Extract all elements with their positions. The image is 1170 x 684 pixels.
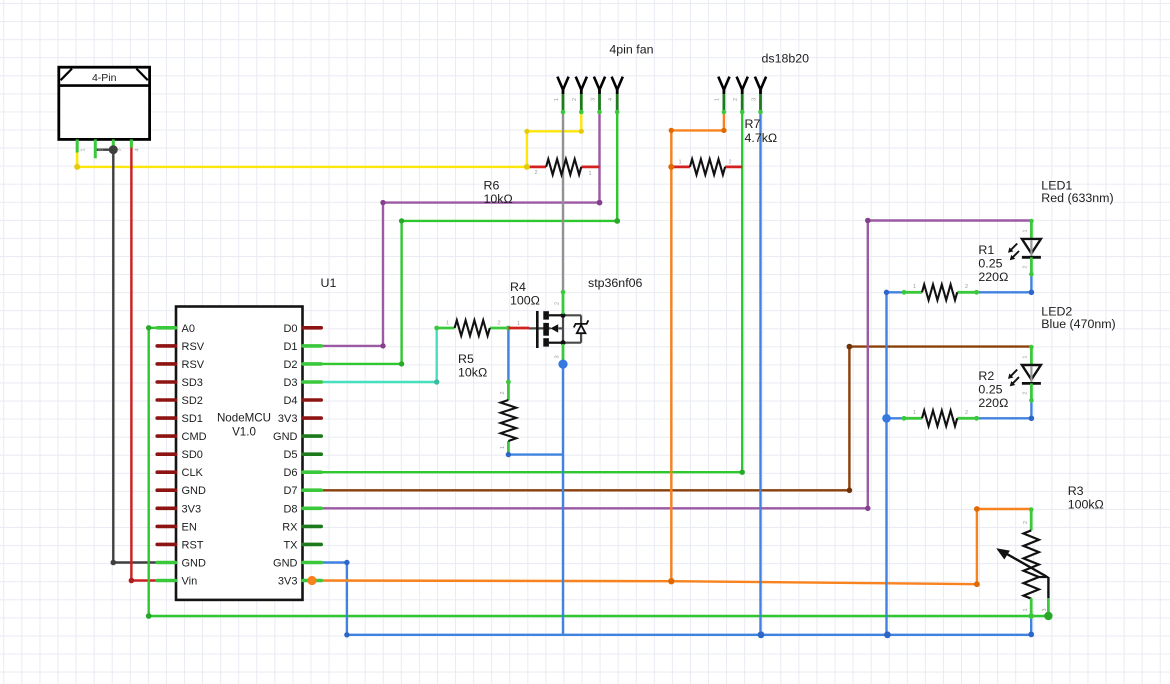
junction green R3 pin3 [1044,612,1052,620]
svg-text:D4: D4 [283,395,297,407]
svg-text:2: 2 [965,410,968,416]
bend green fan pin4 [614,218,620,224]
junction orange 3V3 pin [307,576,316,585]
svg-text:1: 1 [913,410,916,416]
svg-text:SD2: SD2 [182,395,203,407]
U1 right pin 24 D6 [283,467,321,479]
bend brown top [847,344,853,350]
IC U1 NodeMCU V1.0 [176,276,336,600]
svg-text:0.25: 0.25 [978,256,1002,270]
svg-text:2: 2 [535,170,538,176]
U1 right pin 16 D0 [283,323,321,335]
connector pin 3 [113,139,122,151]
svg-text:D8: D8 [283,503,297,515]
bend purple D8 top [865,218,871,224]
resistor R6 10k [484,159,600,206]
U1 right pin 18 D2 [283,359,321,371]
svg-text:2: 2 [729,160,732,166]
bend yellow [524,129,529,134]
wire purple: NodeMCU D8 to LED1 anode [321,221,1031,509]
wire blue: ds18b20 pin3 to bottom rail [759,112,761,635]
svg-text:SD3: SD3 [182,377,203,389]
svg-text:2: 2 [555,302,561,305]
svg-text:2: 2 [572,98,578,101]
bend purple fan pin3 [597,200,603,206]
wire black: 4-Pin pin2/pin3 to NodeMCU GND [95,150,158,563]
resistor R1 220 [902,243,1009,300]
U1 left pin 3 RSV [157,359,205,371]
LED2 blue [1008,305,1116,403]
bend blue GND bottom [344,632,349,637]
junction black at 4-Pin pin3 [109,145,118,154]
wire blue: LED1 cathode to R1, R1 to vertical rail [887,275,1032,635]
wire purple: NodeMCU D1 to fan pin3 [321,112,600,346]
U1 right pin 29 GND [273,558,321,570]
header pin 2 [733,77,748,115]
svg-text:1: 1 [1023,229,1029,232]
wire green: NodeMCU A0 to R3 pin [149,328,1049,616]
svg-text:R6: R6 [484,179,500,193]
svg-text:Red (633nm): Red (633nm) [1041,191,1113,205]
svg-text:Vin: Vin [182,576,198,588]
svg-text:D2: D2 [283,359,297,371]
bend blue GND [344,560,349,565]
U1 right pin 17 D1 [283,341,321,353]
svg-text:D6: D6 [283,467,297,479]
svg-text:R4: R4 [510,280,526,294]
junction blue MOSFET source [558,360,567,369]
svg-text:4pin fan: 4pin fan [609,43,653,57]
U1 right pin 23 D5 [283,449,321,461]
svg-text:U1: U1 [321,276,337,290]
bend orange rail right [974,581,980,587]
U1 right pin 20 D4 [283,395,321,407]
wire green: NodeMCU D6 to ds18b20 pin2 / R7 right [321,112,742,473]
svg-text:R5: R5 [458,352,474,366]
svg-text:220Ω: 220Ω [978,396,1008,410]
svg-text:GND: GND [182,558,207,570]
wire grey: fan pin1 to MOSFET drain [562,112,564,292]
wire cyan: NodeMCU D3 to R4 left [321,328,437,382]
U1 right pin 19 D3 [283,377,321,389]
connector pin 1 [77,139,86,152]
svg-text:SD0: SD0 [182,449,203,461]
junction yellow at R6 left [524,164,530,170]
wire green: NodeMCU D2 to fan pin4 [321,112,617,364]
U1 left pin 7 CMD [157,431,206,443]
svg-text:1: 1 [554,98,560,101]
svg-text:EN: EN [182,521,197,533]
svg-text:3: 3 [555,355,561,358]
svg-text:3V3: 3V3 [182,503,202,515]
svg-text:4: 4 [135,148,141,151]
svg-text:D1: D1 [283,341,297,353]
wire blue: NodeMCU GND to bottom rail and R3 pin1 [321,563,1031,635]
svg-text:0.25: 0.25 [978,383,1002,397]
U1 right pin 25 D7 [283,485,321,497]
svg-text:RX: RX [282,521,298,533]
svg-text:D5: D5 [283,449,297,461]
svg-text:100Ω: 100Ω [510,294,540,308]
junction blue R2 left [882,414,891,423]
U1 left pin 11 3V3 [157,503,201,515]
wire brown: NodeMCU D7 to LED2 anode [321,347,1031,491]
bend green D2 [399,361,404,366]
U1 left pin 8 SD0 [157,449,203,461]
svg-text:2: 2 [498,321,501,327]
U1 left pin 5 SD2 [157,395,203,407]
svg-text:10kΩ: 10kΩ [458,366,487,380]
junction green R3 pin1 [1028,613,1034,619]
svg-text:3: 3 [590,98,596,101]
bend green A0 bottom [146,613,152,619]
wire orange: NodeMCU 3V3 rail to R3 pin2 [312,509,1031,584]
junction orange R7 left [668,164,674,170]
svg-text:220Ω: 220Ω [978,270,1008,284]
svg-text:1: 1 [1023,356,1029,359]
svg-text:1: 1 [913,284,916,290]
svg-text:RSV: RSV [182,341,205,353]
U1 right pin 28 TX [283,539,321,551]
bend orange R3 top [974,506,980,512]
U1 left pin 9 CLK [157,467,203,479]
svg-text:4: 4 [608,98,614,101]
U1 right pin 30 3V3 [278,576,321,588]
svg-text:3V3: 3V3 [278,576,298,588]
svg-text:RSV: RSV [182,359,205,371]
connector pin 4 [131,139,140,151]
bend blue R1 left [884,290,889,295]
bend blue R5 bottom [506,452,511,457]
wire yellow: 4-Pin pin1 to R6 left and fan pin2 [77,112,581,167]
bend yellow [579,129,584,134]
bend red [129,578,135,584]
svg-text:R2: R2 [978,369,994,383]
U1 left pin 13 RST [157,539,204,551]
svg-text:1: 1 [446,321,449,327]
svg-text:10kΩ: 10kΩ [484,192,513,206]
U1 right pin 22 GND [273,431,321,443]
svg-text:1: 1 [81,148,87,151]
svg-text:D0: D0 [283,323,297,335]
U1 right pin 21 3V3 [278,413,321,425]
svg-text:CMD: CMD [182,431,207,443]
connector: ds18b20 [762,52,810,66]
svg-text:Blue (470nm): Blue (470nm) [1041,317,1115,331]
bend blue R3 corner [1028,632,1034,638]
bend blue LED1 cathode [1029,290,1035,296]
svg-text:GND: GND [273,558,298,570]
svg-text:100kΩ: 100kΩ [1068,498,1104,512]
resistor R2 220 [902,369,1009,426]
U1 left pin 12 EN [157,521,197,533]
bend green D6 [740,470,745,475]
U1 left pin 15 Vin [157,576,197,588]
U1 left pin 4 SD3 [157,377,203,389]
svg-text:GND: GND [182,485,207,497]
resistor R7 4.7k [671,117,777,175]
svg-text:1: 1 [715,98,721,101]
svg-text:NodeMCU: NodeMCU [217,412,271,425]
bend brown D7 [847,488,853,494]
svg-text:stp36nf06: stp36nf06 [588,276,643,290]
wire red: 4-Pin pin4 to NodeMCU Vin [131,147,158,581]
svg-text:R1: R1 [978,243,994,257]
bend green A0 [146,325,151,330]
svg-text:V1.0: V1.0 [232,426,256,439]
header pin 3 [590,77,605,115]
U1 left pin 14 GND [157,558,206,570]
bend blue LED2 cathode [1029,416,1035,422]
bend black [111,560,117,566]
U1 left pin 1 A0 [157,323,195,335]
header pin 3 [751,77,766,115]
svg-text:2: 2 [1023,265,1029,268]
svg-text:2: 2 [1023,521,1029,524]
bend orange top [669,128,674,133]
svg-text:R7: R7 [745,117,761,131]
svg-text:3V3: 3V3 [278,413,298,425]
svg-text:3: 3 [1042,608,1048,611]
svg-text:1: 1 [1023,608,1029,611]
svg-text:A0: A0 [182,323,195,335]
svg-text:ds18b20: ds18b20 [762,52,810,66]
header pin 1 [715,77,730,115]
bend purple D1 top [380,200,385,205]
wire blue: R4 right junction down through R5 to source line [508,328,563,455]
LED1 red [1008,178,1114,276]
svg-text:2: 2 [500,391,506,394]
svg-text:3: 3 [751,98,757,101]
junction orange rail [668,578,674,584]
bend green D2 top [399,218,404,223]
bend cyan D3 [434,379,439,384]
bend purple D8 [865,506,870,511]
wire blue: MOSFET source down to bottom rail [562,364,564,635]
header pin 4 [608,77,623,115]
svg-text:2: 2 [99,148,105,151]
header pin 1 [554,77,569,115]
svg-text:D3: D3 [283,377,297,389]
transistor Q1 stp36nf06 [508,276,642,365]
connector J1 4-Pin [59,67,150,139]
U1 right pin 26 D8 [283,503,321,515]
svg-text:1: 1 [679,160,682,166]
junction yellow at 4-Pin pin1 [74,164,80,170]
header pin 2 [572,77,587,115]
U1 right pin 27 RX [282,521,321,533]
svg-text:RST: RST [182,539,204,551]
junction blue LED rail [884,631,891,638]
svg-text:4-Pin: 4-Pin [92,72,117,84]
U1 left pin 10 GND [157,485,206,497]
svg-text:TX: TX [283,539,298,551]
potentiometer R3 100k [996,484,1104,616]
resistor R5 10k (vertical) [458,352,516,457]
svg-text:2: 2 [733,98,739,101]
svg-text:CLK: CLK [182,467,204,479]
connector: 4pin fan [609,43,653,57]
svg-text:1: 1 [589,171,592,177]
resistor R4 100 [434,280,540,336]
U1 left pin 6 SD1 [157,413,203,425]
connector pin 2 [95,139,104,158]
svg-text:2: 2 [1023,392,1029,395]
bend orange ds pin1 [721,128,726,133]
svg-text:1: 1 [517,321,520,327]
svg-text:1: 1 [500,446,506,449]
svg-text:GND: GND [273,431,298,443]
wire blue: LED2 cathode to R2, R2 to vertical rail [887,401,1032,419]
svg-text:D7: D7 [283,485,297,497]
junction blue ds pin3 rail [758,631,765,638]
svg-text:SD1: SD1 [182,413,203,425]
svg-text:4.7kΩ: 4.7kΩ [745,131,778,145]
bend purple D1 [380,343,385,348]
wire orange: ds18b20 pin1 to R7 left and 3V3 rail [671,112,724,582]
svg-text:R3: R3 [1068,484,1084,498]
svg-text:2: 2 [965,284,968,290]
U1 left pin 2 RSV [157,341,205,353]
